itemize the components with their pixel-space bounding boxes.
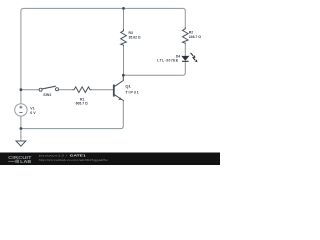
voltage source V1	[15, 104, 27, 116]
wire R2 bottom to D4 anode	[184, 44, 186, 56]
svg-text:R3: R3	[129, 31, 133, 35]
transistor Q1	[114, 75, 124, 101]
wire V1 bottom to ground rail	[20, 116, 22, 128]
junction node V1 top / middle row	[20, 88, 23, 91]
svg-text:Q1: Q1	[125, 84, 131, 89]
CircuitLab logo	[8, 155, 32, 164]
footer bar	[0, 153, 220, 166]
resistor R2	[183, 27, 189, 44]
wire R1 to Q1 base	[92, 89, 114, 91]
svg-text:LTL-307EE: LTL-307EE	[157, 59, 179, 63]
wire collector node to D4 branch	[123, 61, 185, 75]
wire SW2 to R1	[58, 89, 72, 91]
svg-text:LAB: LAB	[20, 159, 31, 164]
svg-text:605.7 Ω: 605.7 Ω	[76, 101, 88, 105]
svg-text:GATE1: GATE1	[70, 153, 86, 157]
resistor R3	[121, 29, 127, 46]
svg-text:35.62 Ω: 35.62 Ω	[129, 36, 141, 40]
wire middle row from V1 branch to SW2	[21, 89, 39, 91]
svg-text:TIP31: TIP31	[125, 91, 139, 95]
svg-text:R2: R2	[189, 31, 193, 35]
wire bottom rail to Q1 emitter	[21, 101, 123, 129]
ground symbol	[16, 129, 26, 146]
LED D4	[182, 53, 198, 62]
junction node ground rail	[20, 127, 23, 130]
wire R3 bottom lead to collector node	[123, 46, 125, 75]
svg-text:6 V: 6 V	[30, 111, 36, 115]
junction node collector	[122, 74, 125, 77]
resistor R1	[72, 87, 92, 93]
switch SW2	[39, 86, 58, 91]
svg-text:SW2: SW2	[43, 93, 51, 97]
svg-text:246.7 Ω: 246.7 Ω	[189, 35, 201, 39]
svg-text:V1: V1	[30, 106, 34, 110]
wire top rail from V1 to R2	[21, 8, 185, 103]
wire R3 top lead	[123, 8, 125, 29]
junction node top rail / R3	[122, 7, 125, 10]
svg-text:jsusays13 /: jsusays13 /	[37, 153, 68, 157]
svg-text:http://circuitlab.com/c/ab3615: http://circuitlab.com/c/ab3615ggab5v	[39, 158, 109, 162]
